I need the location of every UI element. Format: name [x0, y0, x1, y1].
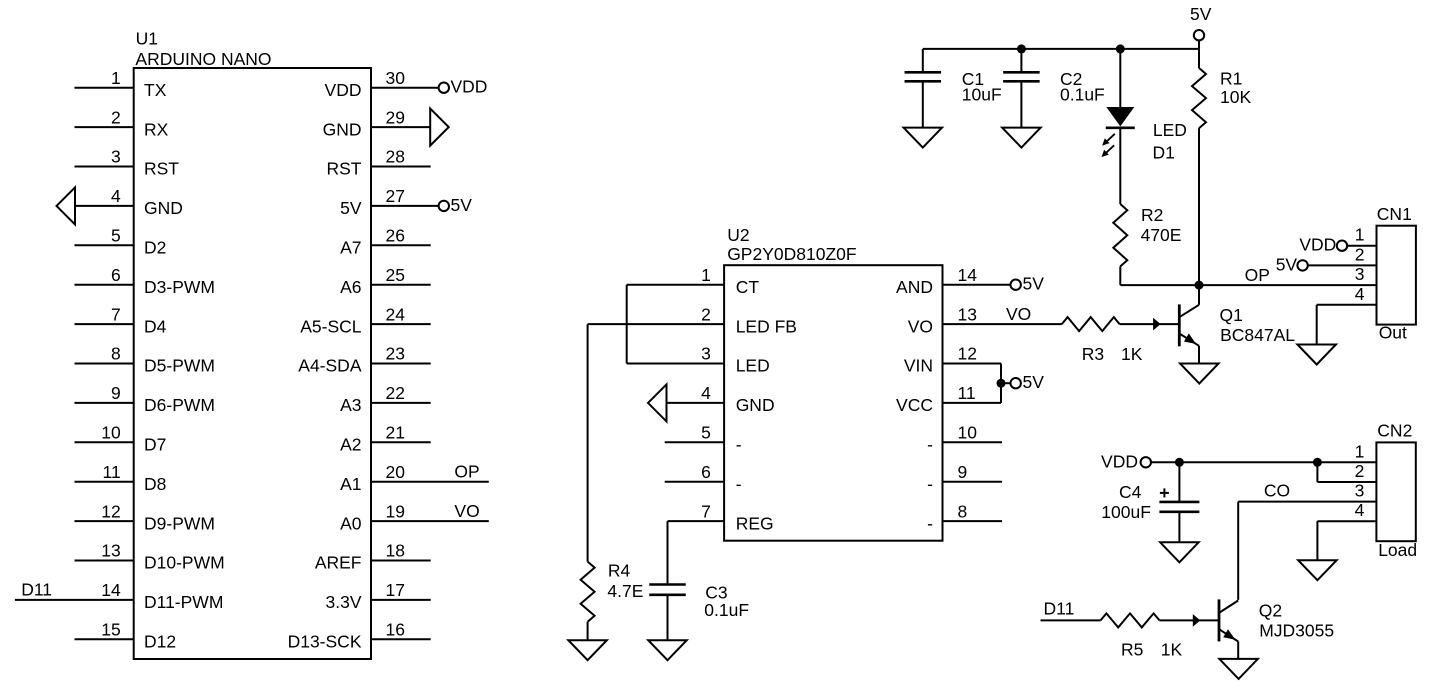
svg-text:1: 1 [111, 68, 121, 88]
ground under Q1 [1180, 364, 1219, 384]
connector CN1 box [1377, 204, 1416, 342]
U2 pin 5 wire [665, 423, 742, 455]
svg-text:470E: 470E [1141, 225, 1182, 245]
CN1 pin 2 wire to 5V terminal [1276, 244, 1377, 274]
svg-text:3: 3 [1355, 264, 1365, 284]
resistor R1 [1192, 49, 1251, 128]
svg-text:2: 2 [701, 304, 711, 324]
svg-text:VDD: VDD [1101, 452, 1138, 472]
svg-text:D4: D4 [144, 316, 167, 336]
svg-text:10: 10 [101, 423, 121, 443]
svg-text:RST: RST [144, 159, 179, 179]
U2 pin 9 wire [927, 462, 1002, 494]
svg-text:1: 1 [1355, 225, 1365, 245]
U1 pin 4 GND port arrow [57, 186, 183, 224]
svg-text:1K: 1K [1161, 640, 1183, 660]
U1 pin 29 GND port arrow [323, 107, 449, 145]
svg-text:5V: 5V [1023, 274, 1045, 294]
svg-text:R1: R1 [1220, 69, 1242, 89]
svg-text:LED: LED [736, 356, 770, 376]
U1 pin 26 A7 wire [340, 226, 431, 258]
svg-text:LED FB: LED FB [736, 316, 797, 336]
svg-text:-: - [736, 474, 742, 494]
svg-text:GND: GND [323, 119, 362, 139]
U2 pin 14 AND wire to 5V terminal [896, 265, 1044, 297]
svg-text:R4: R4 [608, 560, 631, 580]
svg-text:D11-PWM: D11-PWM [144, 592, 223, 612]
wire R2 to OP node [1120, 266, 1199, 285]
svg-text:0.1uF: 0.1uF [704, 600, 749, 620]
U2 pin 13 VO wire [908, 304, 1062, 337]
svg-text:4.7E: 4.7E [607, 581, 643, 601]
svg-text:D3-PWM: D3-PWM [144, 277, 215, 297]
svg-text:2: 2 [111, 107, 121, 127]
svg-text:GND: GND [144, 198, 183, 218]
svg-text:TX: TX [144, 80, 167, 100]
wire to CN2 pin 2 [1317, 461, 1376, 482]
U1 pin 14 wire with net label D11 [15, 580, 224, 613]
U2 pin 2 LED FB wire to R4 [588, 304, 797, 561]
U1 pin 7 D4 wire [75, 304, 167, 336]
svg-text:A7: A7 [340, 238, 361, 258]
svg-text:5V: 5V [1023, 372, 1045, 392]
LED D1 [1102, 107, 1187, 162]
U1 pin 12 D9-PWM wire [75, 501, 215, 533]
svg-text:Q2: Q2 [1259, 600, 1282, 620]
U1 pin 9 D6-PWM wire [75, 383, 215, 415]
wire R4 to ground [587, 622, 589, 640]
svg-text:LED: LED [1153, 120, 1187, 140]
svg-text:5V: 5V [1276, 254, 1298, 274]
svg-text:-: - [736, 435, 742, 455]
net label D11 and wire to R5 [1041, 599, 1101, 621]
svg-text:OP: OP [454, 461, 479, 481]
svg-text:16: 16 [386, 620, 405, 640]
U2 pin 3 LED wire [627, 344, 770, 376]
svg-text:4: 4 [1355, 284, 1365, 304]
ground under CN1 pin 4 [1297, 345, 1336, 365]
svg-text:A4-SDA: A4-SDA [298, 356, 362, 376]
U1 pin 25 A6 wire [340, 265, 431, 297]
svg-text:OP: OP [1245, 265, 1270, 285]
wire C2 to ground [1020, 81, 1022, 127]
junction dot and 5V terminal at U2 VIN/VCC [997, 372, 1045, 392]
svg-text:28: 28 [386, 147, 405, 167]
wire joining U2 pins 1 and 3 [626, 285, 628, 364]
capacitor C3 [649, 582, 749, 620]
svg-text:2: 2 [1355, 461, 1365, 481]
svg-text:6: 6 [701, 462, 711, 482]
CO net wire CN2 pin 3 to Q2 [1238, 480, 1376, 600]
U1 pin 22 A3 wire [340, 383, 431, 415]
wire R5 to Q2 base [1160, 614, 1220, 627]
svg-text:VDD: VDD [325, 80, 362, 100]
svg-text:30: 30 [386, 68, 406, 88]
svg-text:CO: CO [1264, 480, 1290, 500]
svg-text:10: 10 [958, 423, 978, 443]
resistor R5 [1101, 613, 1183, 659]
svg-text:A1: A1 [340, 474, 361, 494]
ground under C3 [648, 640, 687, 660]
U1 pin 16 D13-SCK wire [288, 620, 431, 652]
svg-text:AND: AND [896, 277, 933, 297]
transistor Q2 MJD3055 [1219, 599, 1334, 659]
svg-text:10uF: 10uF [962, 84, 1002, 104]
capacitor C1 [905, 49, 1002, 105]
junction dot at OP node [1195, 281, 1204, 290]
U1 pin 27 5V wire and terminal [340, 186, 472, 218]
CN1 pin 3 label [1355, 264, 1365, 284]
svg-text:A5-SCL: A5-SCL [300, 316, 362, 336]
U1 pin 28 RST wire [327, 147, 431, 179]
svg-text:5: 5 [701, 423, 711, 443]
U2 pin 6 wire [665, 462, 742, 494]
U2 pin 10 wire [927, 423, 1002, 455]
svg-text:8: 8 [111, 344, 121, 364]
svg-text:D6-PWM: D6-PWM [144, 395, 215, 415]
svg-text:13: 13 [101, 541, 120, 561]
svg-text:25: 25 [386, 265, 405, 285]
svg-text:GND: GND [736, 395, 775, 415]
VDD terminal [1101, 452, 1151, 472]
svg-text:D1: D1 [1153, 142, 1175, 162]
U1 pin 6 D3-PWM wire [75, 265, 215, 297]
wire R1 to OP node [1198, 128, 1200, 285]
U1 pin 10 D7 wire [75, 423, 167, 455]
svg-text:A0: A0 [340, 513, 362, 533]
svg-text:D11: D11 [1044, 599, 1075, 619]
svg-text:14: 14 [101, 580, 121, 600]
wire C4 to ground [1178, 512, 1180, 543]
U1 pin 18 AREF wire [315, 541, 431, 573]
svg-text:24: 24 [386, 304, 406, 324]
svg-text:3.3V: 3.3V [326, 592, 362, 612]
svg-text:9: 9 [111, 383, 121, 403]
capacitor C2 [1003, 49, 1105, 105]
svg-text:Out: Out [1379, 322, 1407, 342]
svg-text:3: 3 [701, 344, 711, 364]
svg-text:19: 19 [386, 501, 405, 521]
svg-text:VO: VO [908, 316, 933, 336]
U1 pin 30 VDD wire and terminal [325, 68, 488, 100]
svg-text:RX: RX [144, 119, 169, 139]
svg-text:REG: REG [736, 513, 774, 533]
U1 pin 15 D12 wire [75, 620, 177, 652]
svg-text:3: 3 [111, 147, 121, 167]
svg-text:5V: 5V [340, 198, 362, 218]
svg-text:MJD3055: MJD3055 [1259, 621, 1334, 641]
svg-text:R5: R5 [1121, 640, 1143, 660]
U1 pin 17 3.3V wire [326, 580, 431, 612]
U2 pin 4 GND port arrow [648, 383, 775, 421]
svg-text:13: 13 [958, 304, 977, 324]
svg-text:1: 1 [1355, 441, 1365, 461]
svg-text:10K: 10K [1220, 87, 1251, 107]
ground under R4 [568, 640, 607, 660]
svg-text:Q1: Q1 [1220, 305, 1243, 325]
U1 pin 1 TX wire [75, 68, 167, 100]
U1 pin 5 D2 wire [75, 226, 167, 258]
resistor R2 [1113, 204, 1181, 266]
svg-text:14: 14 [958, 265, 978, 285]
resistor R3 [1062, 317, 1143, 364]
svg-text:6: 6 [111, 265, 121, 285]
U1 pin 8 D5-PWM wire [75, 344, 215, 376]
OP net wire to CN1 pin 3 [1199, 265, 1377, 285]
wire C1 to ground [922, 81, 924, 127]
svg-text:Load: Load [1378, 540, 1417, 560]
VDD wire to CN2 pin 1 [1151, 441, 1376, 462]
CN2 pin 4 wire to ground [1317, 500, 1376, 560]
svg-text:8: 8 [958, 501, 968, 521]
ground under CN2 pin 4 [1298, 560, 1337, 580]
svg-text:-: - [927, 474, 933, 494]
svg-text:A2: A2 [340, 435, 361, 455]
U2 pin 7 REG wire to C3 [668, 501, 774, 583]
U1 pin 23 A4-SDA wire [298, 344, 430, 376]
svg-text:4: 4 [701, 383, 711, 403]
svg-text:-: - [927, 435, 933, 455]
svg-text:CN2: CN2 [1377, 421, 1412, 441]
svg-text:A3: A3 [340, 395, 361, 415]
svg-text:VO: VO [454, 501, 479, 521]
svg-text:15: 15 [101, 620, 120, 640]
svg-text:CN1: CN1 [1377, 204, 1412, 224]
svg-text:AREF: AREF [315, 553, 362, 573]
5V bus wire [923, 48, 1199, 50]
svg-text:R2: R2 [1141, 205, 1163, 225]
svg-text:26: 26 [386, 226, 405, 246]
svg-text:D7: D7 [144, 435, 166, 455]
svg-text:D8: D8 [144, 474, 166, 494]
svg-text:4: 4 [1355, 500, 1365, 520]
svg-text:7: 7 [111, 304, 121, 324]
ground under C1 [904, 128, 943, 148]
svg-text:29: 29 [386, 107, 405, 127]
transistor Q1 BC847AL [1179, 285, 1295, 363]
svg-text:18: 18 [386, 541, 405, 561]
U1 pin 2 RX wire [75, 107, 169, 139]
svg-text:VO: VO [1006, 304, 1031, 324]
U2 pin 12 VIN wire [904, 344, 1001, 376]
svg-text:RST: RST [327, 159, 362, 179]
U2 pin 11 VCC wire [896, 383, 1001, 415]
svg-text:U1: U1 [136, 28, 158, 48]
U1 pin 11 D8 wire [75, 462, 167, 494]
ground under C2 [1002, 128, 1041, 148]
svg-text:22: 22 [386, 383, 405, 403]
junction dot at LED branch [1116, 44, 1125, 53]
resistor R4 [581, 560, 644, 622]
svg-text:1K: 1K [1121, 344, 1143, 364]
svg-text:20: 20 [386, 462, 406, 482]
svg-text:4: 4 [111, 186, 121, 206]
svg-text:11: 11 [103, 462, 121, 482]
VO wire R3 to Q1 base [1120, 318, 1180, 331]
svg-text:D13-SCK: D13-SCK [288, 632, 362, 652]
U2 pin 1 CT wire [627, 265, 760, 297]
5V supply terminal [1190, 4, 1212, 49]
svg-text:ARDUINO NANO: ARDUINO NANO [135, 49, 271, 69]
svg-text:VIN: VIN [904, 356, 933, 376]
U1 pin 3 RST wire [75, 147, 180, 179]
U1 pin 19 wire with net label VO [340, 501, 489, 534]
svg-text:5V: 5V [451, 195, 473, 215]
U1 pin 21 A2 wire [340, 423, 431, 455]
svg-text:2: 2 [1355, 244, 1365, 264]
connector CN2 box [1376, 421, 1417, 560]
svg-text:17: 17 [386, 580, 405, 600]
svg-text:VDD: VDD [451, 77, 488, 97]
svg-text:CT: CT [736, 277, 760, 297]
svg-text:23: 23 [386, 344, 405, 364]
svg-text:VDD: VDD [1299, 235, 1336, 255]
svg-text:12: 12 [101, 501, 120, 521]
wire LED to R2 [1119, 128, 1121, 204]
wire joining U2 pins 12 and 11 [1000, 364, 1002, 403]
svg-text:11: 11 [958, 383, 976, 403]
IC U1 ARDUINO NANO box [134, 28, 371, 659]
svg-text:D5-PWM: D5-PWM [144, 356, 215, 376]
junction dot at C4 [1175, 458, 1184, 467]
svg-text:27: 27 [386, 186, 405, 206]
svg-text:D12: D12 [144, 632, 176, 652]
svg-text:VCC: VCC [896, 395, 933, 415]
svg-text:12: 12 [958, 344, 977, 364]
U2 pin 8 wire [927, 501, 1002, 533]
svg-text:A6: A6 [340, 277, 361, 297]
svg-text:BC847AL: BC847AL [1220, 325, 1295, 345]
svg-text:1: 1 [701, 265, 711, 285]
CN1 pin 1 wire to VDD terminal [1299, 225, 1376, 255]
svg-text:100uF: 100uF [1101, 502, 1151, 522]
CN1 pin 4 wire to ground [1317, 284, 1377, 345]
svg-text:R3: R3 [1082, 344, 1104, 364]
svg-text:0.1uF: 0.1uF [1060, 84, 1105, 104]
junction dot at CN2 pin 2 branch [1313, 458, 1322, 467]
svg-text:5: 5 [111, 226, 121, 246]
capacitor C4 [1101, 462, 1199, 522]
ground under C4 [1160, 542, 1199, 562]
ground under Q2 [1219, 659, 1258, 679]
U1 pin 20 wire with net label OP [340, 461, 489, 494]
svg-text:7: 7 [701, 501, 711, 521]
svg-text:GP2Y0D810Z0F: GP2Y0D810Z0F [727, 244, 856, 264]
svg-text:D9-PWM: D9-PWM [144, 513, 215, 533]
svg-text:C4: C4 [1119, 482, 1142, 502]
wire C3 to ground [667, 595, 669, 640]
svg-text:D10-PWM: D10-PWM [144, 553, 225, 573]
U1 pin 24 A5-SCL wire [300, 304, 430, 336]
svg-text:21: 21 [386, 423, 405, 443]
svg-text:U2: U2 [727, 225, 749, 245]
wire bus to LED [1119, 49, 1121, 107]
IC U2 GP2Y0D810Z0F box [724, 225, 942, 541]
junction dot at C2 [1017, 44, 1026, 53]
svg-text:5V: 5V [1190, 4, 1212, 24]
svg-text:9: 9 [958, 462, 968, 482]
svg-text:3: 3 [1355, 481, 1365, 501]
U1 pin 13 D10-PWM wire [75, 541, 225, 573]
svg-text:D11: D11 [21, 580, 52, 600]
svg-text:D2: D2 [144, 238, 166, 258]
svg-text:-: - [927, 513, 933, 533]
